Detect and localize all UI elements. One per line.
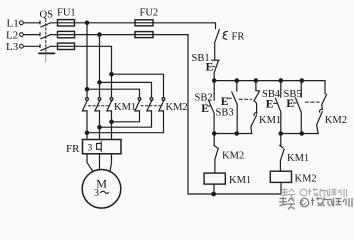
svg-text:KM1: KM1 [259,115,281,126]
watermark row 2 [279,197,352,210]
node rail D [279,79,282,82]
fuse FU1 c [58,45,75,47]
pushbutton SB5 NO [296,81,302,134]
node branch L1 to KM2 [85,88,88,91]
wire QS to FU1 L1 [51,22,58,24]
node crossover L2 [98,126,101,129]
KM2 aux NC hook [320,109,323,112]
wire KM2 right output crossover to L1 [87,111,164,133]
switch QS pole 1 [41,23,50,27]
FR NC hook [223,31,227,39]
KM1 aux NC hook [254,113,257,116]
KM2 main linkage dashed [141,105,162,107]
wire FR to motor left [87,154,93,172]
wire coil KM2 to rail [280,182,282,194]
wire branch L3 to KM2 right column [112,74,164,97]
switch QS pole 3 [41,47,50,51]
contactor KM1 main contact 3 [107,98,113,111]
coil KM2 [270,171,291,182]
wire branch L1 to KM2 left column [87,89,140,97]
node rail E [300,79,303,82]
QS linkage dashed [45,20,47,53]
wire KM1 outputs down to FR [87,111,112,139]
node bottom A [213,132,216,135]
contactor KM1 main contact 1 [82,98,88,111]
node junction L2 drop [98,33,101,36]
node rail B [235,79,238,82]
contactor KM1 interlock NC contact [251,115,257,134]
motor tilde [100,191,108,193]
node branch L3 to KM2 [110,73,113,76]
fuse FU2 a [135,22,153,24]
svg-text:L2: L2 [6,30,18,42]
contactor KM2 main contact 3 [159,98,165,111]
svg-text:KM2: KM2 [166,102,188,113]
SB3 actuator link [227,97,231,99]
SB2 actuator link [208,105,211,107]
wire L1 to QS [24,21,41,24]
thermal relay FR NC contact [215,29,220,59]
svg-text:KM2: KM2 [325,115,347,126]
node branch L2 to KM2 [98,81,101,84]
node junction L1 drop [85,21,88,24]
contactor KM2 main contact 2 [147,98,153,111]
node rail A [213,79,216,82]
wire branch L2 to KM2 middle column [100,82,152,97]
node bottom B [235,132,238,135]
pushbutton SB3 NC contact column [254,81,260,114]
SB5 linkage dashed to SB5 NC [305,101,319,103]
wire KM2 middle output crossover to L2 [100,111,152,127]
contactor KM2 main contact 1 [135,98,141,111]
SB3 linkage dashed to SB3 NC [239,98,252,100]
thermal relay FR box [83,140,122,154]
svg-text:L3: L3 [6,41,19,53]
SB4 actuator link [274,102,277,104]
wire L1 row after FU1 [75,22,136,24]
wire FR to motor right [110,154,112,172]
pushbutton SB5 NC contact column [322,81,327,110]
node L3 terminal [20,44,24,48]
QS handle bar [39,52,55,54]
control top rail [214,80,325,82]
fuse FU1 a [58,22,75,24]
wire QS to FU1 L2 [51,34,58,36]
wire FU2b to left rail [153,34,188,36]
wire FU2a to control corner [153,23,216,29]
QS handle stem [45,54,47,62]
svg-text:QS: QS [40,10,54,21]
wire FR to motor middle [99,154,101,170]
control left rail [187,35,189,194]
node crossover L1 [85,131,88,134]
fuse FU2 b [135,34,153,36]
wire L2 row after FU1 [75,34,136,36]
svg-text:E: E [206,61,214,73]
svg-text:FU1: FU1 [57,8,76,19]
contactor KM2 interlock NC contact lower [317,112,323,134]
wire L3 vertical drop [111,46,113,97]
right branch bottom rail [281,133,318,135]
svg-text:KM2: KM2 [222,151,244,162]
fuse FU1 b [58,34,75,36]
svg-text:KM1: KM1 [287,153,309,164]
contactor KM2 interlock NC contact [214,134,219,174]
watermark row 1 [281,188,347,200]
wire L2 to QS [24,33,41,36]
svg-text:3: 3 [88,144,93,154]
svg-text:KM2: KM2 [295,174,317,185]
motor M circle [82,170,121,209]
svg-text:KM1: KM1 [229,175,251,186]
wire L3 to QS [24,45,41,48]
pushbutton SB1 NC stop [212,60,220,80]
svg-text:FR: FR [66,143,80,155]
svg-text:KM1: KM1 [114,102,136,113]
wire L1 vertical drop [86,23,88,98]
node rail C [254,79,257,82]
svg-text:SB3: SB3 [216,108,234,119]
node coil bottom junction [212,192,216,196]
node bottom D [279,132,282,135]
wire coil KM1 to rail [213,184,215,194]
svg-text:E: E [221,96,229,108]
svg-text:E: E [266,98,274,110]
contactor KM1 interlock NC above KM2 coil [280,134,285,172]
node L1 terminal [20,21,24,25]
wire L3 row after FU1 [75,45,112,47]
wire QS to FU1 L3 [51,45,58,47]
coil KM1 [204,173,225,184]
node L2 terminal [20,33,24,37]
pushbutton SB4 NO [275,81,281,134]
svg-text:FU2: FU2 [140,8,159,19]
wire KM2 left output crossover to L3 [112,111,140,122]
svg-text:E: E [201,103,209,115]
node crossover L3 [110,120,113,123]
svg-text:FR: FR [232,32,245,43]
control bottom rail [188,193,281,195]
SB1 actuator link [213,66,215,68]
wire L2 vertical drop [99,35,101,98]
pushbutton SB2 NO [209,81,214,134]
left branch bottom rail [214,133,252,135]
svg-text:L1: L1 [7,18,19,30]
node bottom E [300,132,303,135]
pushbutton SB3 NO [232,81,238,134]
KM1 main linkage dashed [89,105,110,107]
switch QS pole 2 [41,35,50,39]
FR heater element symbol [97,141,102,151]
svg-text:E: E [286,98,294,110]
contactor KM1 main contact 2 [95,98,101,111]
SB5 actuator link [293,102,296,104]
svg-text:3: 3 [94,188,99,199]
